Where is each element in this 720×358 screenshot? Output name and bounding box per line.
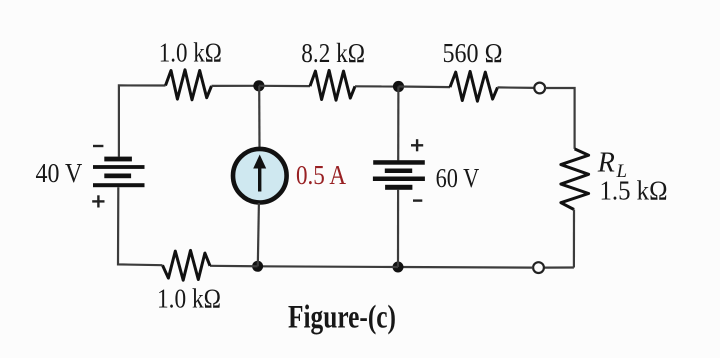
value label 560 Ohm bbox=[443, 38, 503, 68]
wire bottom-right rail bbox=[544, 266, 574, 268]
svg-text:8.2 kΩ: 8.2 kΩ bbox=[301, 38, 365, 68]
terminal open circle bottom bbox=[533, 262, 544, 273]
wire battery V2 to node D bbox=[397, 190, 399, 267]
node C junction dot bottom-left bbox=[252, 261, 263, 272]
svg-text:1.5 kΩ: 1.5 kΩ bbox=[600, 176, 668, 206]
resistor R3 560 Ohm bbox=[450, 71, 498, 101]
node A junction dot top-left bbox=[253, 80, 264, 91]
wire node C to R4 bbox=[210, 265, 258, 268]
value label 60 V bbox=[436, 163, 480, 193]
resistor RL 1.5 kOhm vertical bbox=[561, 149, 589, 210]
node D junction dot bottom-right bbox=[393, 262, 404, 273]
svg-text:R: R bbox=[597, 147, 615, 178]
wire top-left rail bbox=[119, 85, 166, 156]
wire node B down to battery V2 bbox=[397, 87, 399, 161]
battery V2 plus sign bbox=[411, 139, 423, 151]
svg-text:0.5 A: 0.5 A bbox=[296, 160, 346, 190]
battery V2 minus sign bbox=[413, 199, 422, 201]
value label 1.5 kOhm bbox=[600, 176, 668, 206]
value label 8.2 kOhm bbox=[301, 38, 365, 68]
caption Figure-(c) bbox=[288, 299, 396, 335]
svg-text:1.0 kΩ: 1.0 kΩ bbox=[157, 284, 221, 314]
resistor R1 1.0 kOhm top bbox=[166, 70, 212, 100]
value label 0.5 A bbox=[296, 160, 346, 190]
svg-text:560 Ω: 560 Ω bbox=[443, 38, 503, 68]
wire bottom terminal to node D bbox=[398, 266, 533, 269]
battery V1 plus sign bbox=[92, 195, 104, 207]
wire current source to node C bbox=[258, 203, 259, 266]
wire node A down to current source I1 bbox=[258, 86, 260, 150]
svg-text:60 V: 60 V bbox=[436, 163, 480, 193]
wire node B to R3 bbox=[399, 85, 451, 88]
value label 1.0 kOhm top bbox=[159, 37, 222, 67]
wire node A to R2 bbox=[259, 85, 310, 87]
resistor R2 8.2 kOhm bbox=[310, 70, 355, 100]
battery V1 minus sign bbox=[93, 145, 103, 147]
wire R2 to node B bbox=[355, 85, 399, 87]
node B junction dot top-right bbox=[393, 81, 404, 92]
value label 1.0 kOhm bottom bbox=[157, 284, 221, 314]
terminal open circle top bbox=[534, 83, 545, 94]
svg-text:1.0 kΩ: 1.0 kΩ bbox=[159, 37, 222, 67]
wire bottom-left rail bbox=[118, 187, 163, 265]
current source I1 arrow bbox=[253, 155, 266, 192]
label RL designator bbox=[597, 147, 627, 182]
svg-text:40 V: 40 V bbox=[36, 158, 83, 188]
svg-text:Figure-(c): Figure-(c) bbox=[288, 299, 396, 335]
wire node D to node C bbox=[258, 265, 398, 268]
wire from R1 to node A bbox=[212, 85, 260, 87]
battery V1 40 V bbox=[93, 157, 145, 188]
value label 40 V bbox=[36, 158, 83, 188]
current source I1 circle bbox=[233, 149, 287, 203]
wire RL bottom lead bbox=[573, 210, 575, 268]
wire top terminal to RL top bbox=[545, 88, 574, 149]
wire R3 to top terminal bbox=[498, 86, 535, 89]
battery V2 60 V bbox=[373, 160, 425, 190]
resistor R4 1.0 kOhm bottom bbox=[163, 250, 211, 280]
